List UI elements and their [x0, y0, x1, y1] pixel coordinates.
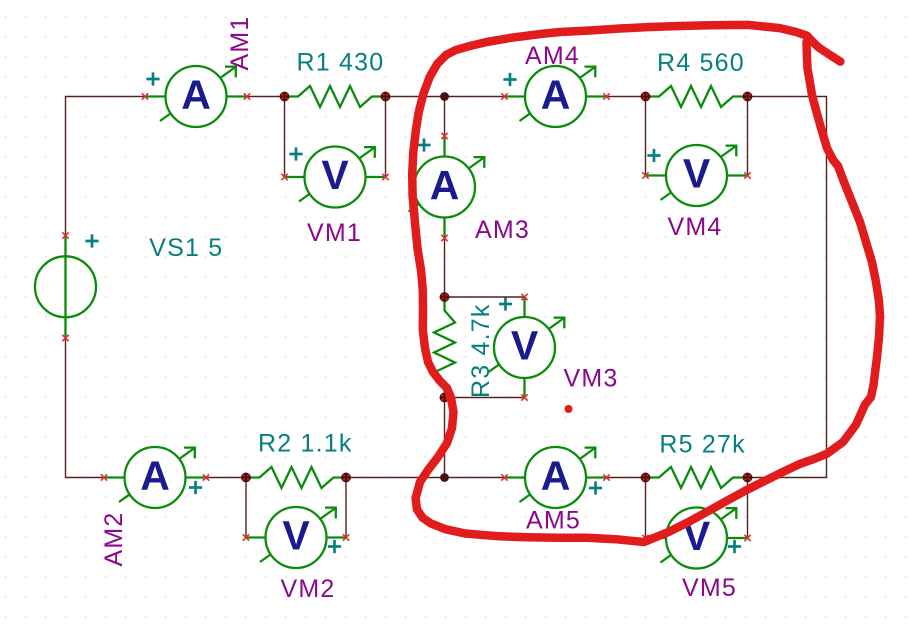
wire [386, 96, 505, 98]
METERS [101, 66, 751, 569]
wire [445, 397, 525, 399]
voltmeter VM5 [642, 508, 750, 569]
wire [747, 478, 749, 539]
wire [747, 97, 749, 176]
ammeter AM4 [501, 66, 609, 127]
wire [607, 96, 646, 98]
node R2 left [241, 473, 251, 483]
svg-text:A: A [181, 72, 211, 118]
svg-text:AM5: AM5 [526, 507, 581, 535]
svg-text:R3 4.7k: R3 4.7k [467, 303, 495, 398]
voltmeter VM3 [489, 294, 565, 401]
resistor R4 [646, 86, 748, 107]
resistor R1 [285, 86, 386, 107]
resistor R3 [434, 297, 455, 398]
svg-text:R5 27k: R5 27k [659, 431, 745, 459]
wire [247, 96, 285, 98]
node R5 left [641, 473, 651, 483]
wire [645, 97, 647, 176]
svg-text:AM4: AM4 [525, 42, 580, 70]
svg-text:VM2: VM2 [281, 575, 336, 603]
ammeter AM2 [101, 447, 209, 508]
svg-text:VM4: VM4 [668, 213, 723, 241]
ammeter AM1 [142, 66, 250, 127]
wire [385, 97, 387, 178]
svg-text:VM5: VM5 [682, 574, 737, 602]
resistor R5 [646, 467, 748, 488]
wire [444, 238, 446, 297]
wire [345, 478, 347, 538]
svg-text:V: V [511, 323, 539, 369]
wire [245, 478, 247, 538]
node R3 bottom [440, 393, 450, 403]
svg-text:AM1: AM1 [226, 15, 254, 70]
node R1 right [381, 92, 391, 102]
red freehand loop [412, 25, 880, 542]
voltmeter VM1 [281, 147, 388, 208]
VOLTAGE SOURCE VS1 [35, 232, 99, 341]
ammeter AM3 [409, 133, 485, 241]
svg-text:V: V [683, 151, 711, 197]
wire [206, 477, 246, 479]
resistor R2 [246, 467, 346, 488]
svg-text:V: V [282, 513, 310, 559]
wire [444, 398, 446, 478]
svg-text:VM3: VM3 [564, 365, 619, 393]
wire [445, 296, 525, 298]
svg-text:R2 1.1k: R2 1.1k [258, 430, 353, 458]
wire [66, 97, 146, 236]
svg-text:R4 560: R4 560 [657, 49, 745, 77]
ammeter AM5 [501, 447, 609, 508]
svg-text:AM2: AM2 [100, 511, 128, 566]
node R2 right [341, 473, 351, 483]
ANNOTATION [412, 25, 880, 542]
node R4 right [743, 92, 753, 102]
voltmeter VM4 [642, 145, 750, 206]
node AM3 top tee [440, 92, 449, 101]
svg-text:VM1: VM1 [307, 219, 362, 247]
svg-text:A: A [541, 72, 571, 118]
RESISTORS [246, 86, 748, 488]
svg-text:VS1 5: VS1 5 [149, 234, 223, 262]
svg-text:A: A [140, 453, 170, 499]
svg-text:A: A [430, 162, 460, 208]
svg-text:AM3: AM3 [475, 216, 530, 244]
node R3 top [440, 292, 450, 302]
wire [607, 477, 646, 479]
node R4 left [641, 92, 651, 102]
wire [284, 97, 286, 178]
wire [66, 338, 105, 478]
wire [346, 477, 505, 479]
svg-text:V: V [321, 152, 349, 198]
wire [748, 97, 827, 478]
svg-text:A: A [541, 453, 571, 499]
voltage source VS1 [35, 256, 96, 317]
voltmeter VM2 [243, 507, 349, 568]
node R5 right [743, 473, 753, 483]
svg-text:R1 430: R1 430 [297, 48, 385, 76]
wire [645, 478, 647, 539]
red dot mark [565, 405, 573, 413]
node R1 left [280, 92, 290, 102]
wire [444, 97, 446, 137]
node AM3 bottom tee [440, 473, 449, 482]
